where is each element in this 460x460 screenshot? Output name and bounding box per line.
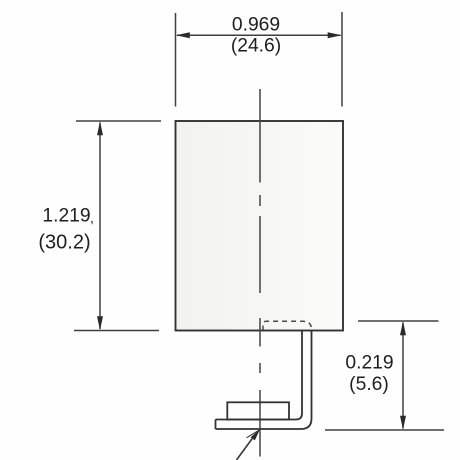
right dimension extension line bottom: [325, 429, 444, 431]
svg-text:,: ,: [90, 210, 94, 226]
right dimension bottom arrowhead: [400, 416, 406, 430]
bracket vertical tab outer line + foot bottom: [216, 331, 312, 430]
svg-text:(24.6): (24.6): [231, 36, 281, 57]
top dimension line: [177, 34, 341, 36]
top dimension left arrowhead: [176, 32, 190, 38]
svg-text:0.969: 0.969: [232, 15, 280, 36]
centerline (dash-dot): [259, 89, 261, 457]
leader arrow to bracket foot: [237, 437, 254, 460]
svg-text:1.219: 1.219: [42, 206, 90, 227]
left dimension line: [99, 123, 101, 330]
left dimension top arrowhead: [97, 121, 103, 135]
hidden bracket outline (dashed): [263, 321, 312, 329]
left dimension extension line top: [76, 120, 161, 122]
top dimension extension line right: [341, 12, 343, 107]
svg-text:0.219: 0.219: [345, 353, 393, 374]
right dimension line: [402, 323, 404, 429]
right dimension extension line top: [358, 320, 439, 322]
left dimension bottom arrowhead: [97, 316, 103, 330]
right dimension top arrowhead: [400, 321, 406, 335]
block on bracket foot: [227, 402, 289, 419]
left dimension extension line bottom: [74, 330, 159, 332]
top dimension extension line left: [175, 13, 177, 107]
top dimension right arrowhead: [328, 32, 342, 38]
bracket foot left cap: [215, 420, 217, 430]
svg-text:(30.2): (30.2): [38, 232, 90, 254]
svg-text:(5.6): (5.6): [349, 374, 389, 395]
bracket vertical tab inner line + foot top: [216, 331, 303, 420]
